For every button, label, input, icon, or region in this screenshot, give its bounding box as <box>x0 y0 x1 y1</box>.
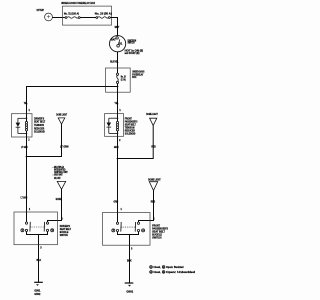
passenger solenoid top junction <box>109 117 118 119</box>
wire dome light lower to passenger buckle switch <box>139 191 154 223</box>
pin 2 driver buckle switch <box>61 219 63 221</box>
under-dash fuse/relay box label <box>132 70 144 79</box>
svg-text:3: 3 <box>131 249 133 251</box>
svg-text:No. 31 (100 A): No. 31 (100 A) <box>64 13 79 16</box>
dome light connector arrow right upper <box>150 118 157 125</box>
driver buckle switch left pole contacts <box>25 212 27 231</box>
pin 1 passenger buckle switch <box>121 209 123 211</box>
fuse No.15 <box>116 73 118 83</box>
svg-text:2: 2 <box>150 272 151 274</box>
wire label BLK passenger <box>127 260 132 263</box>
driver solenoid bottom junction <box>18 133 27 135</box>
svg-text:1: 1 <box>150 267 151 269</box>
pin 1 passenger solenoid <box>119 110 121 112</box>
svg-text:BLK/YEL: BLK/YEL <box>110 60 119 63</box>
circled contact number 3 <box>51 229 54 232</box>
fuse No.23 <box>96 17 110 19</box>
wire between fuses <box>80 17 96 19</box>
battery label <box>37 8 45 12</box>
multiplex control unit note <box>53 167 68 180</box>
svg-text:RED: RED <box>151 200 156 203</box>
junction driver dome branch <box>26 156 28 158</box>
dome light connector arrow left <box>58 118 65 124</box>
driver buckle switch right lever <box>43 222 45 232</box>
svg-text:SRS UNIT: SRS UNIT <box>54 175 63 177</box>
ignition switch lever <box>119 39 120 44</box>
svg-text:and START (III): and START (III) <box>125 51 140 55</box>
driver buckle switch bottom bus <box>27 232 48 245</box>
svg-text:SWITCH: SWITCH <box>60 233 68 237</box>
svg-text:BLK/RED: BLK/RED <box>56 199 62 201</box>
dome light label right lower <box>148 179 161 182</box>
passenger buckle switch left lever <box>120 222 122 232</box>
wire driver buckle switch to ground <box>38 245 40 282</box>
svg-text:DRL UNIT: DRL UNIT <box>54 178 61 180</box>
wire label BLK driver <box>37 259 42 262</box>
wire control unit arrow to driver buckle switch <box>48 189 62 222</box>
under-hood fuse/relay box label <box>61 1 95 5</box>
passenger buckle switch bottom bus <box>118 232 139 246</box>
wire passenger buckle switch to ground <box>129 245 131 283</box>
svg-text:LT GRN: LT GRN <box>21 146 28 149</box>
svg-text:GRN: GRN <box>114 201 119 204</box>
dome light label right upper <box>146 113 158 116</box>
dome light connector arrow right lower <box>149 182 157 191</box>
driver solenoid internal wire top <box>26 114 28 122</box>
svg-text:1: 1 <box>29 209 31 211</box>
ignition switch <box>110 36 126 52</box>
wire dome light left to junction <box>27 124 62 156</box>
svg-text:G601: G601 <box>126 290 133 293</box>
driver seat belt tension reducer solenoid box <box>12 114 33 137</box>
svg-text:YEL: YEL <box>115 102 119 105</box>
svg-text:1: 1 <box>121 209 123 211</box>
svg-text:No. 15: No. 15 <box>121 77 126 79</box>
svg-text:DOME LIGHT: DOME LIGHT <box>146 113 158 116</box>
fuse No.23 label <box>95 13 112 16</box>
svg-text:1: 1 <box>29 110 31 112</box>
svg-text:DOME LIGHT: DOME LIGHT <box>56 113 67 116</box>
svg-text:2: 2 <box>28 140 30 142</box>
wire fuse down through box <box>117 84 119 114</box>
wire fuse box to ignition switch <box>110 18 117 37</box>
svg-text:SWITCH: SWITCH <box>128 41 135 44</box>
wire label RED dome right <box>151 146 156 149</box>
driver buckle switch left lever <box>29 222 31 232</box>
ground G501 <box>34 282 43 286</box>
passenger buckle switch right pole contacts <box>137 222 139 232</box>
passenger solenoid internal wire bottom <box>117 131 119 137</box>
svg-text:Open: Unbuckled: Open: Unbuckled <box>166 271 196 274</box>
wire label LT GRN driver lower <box>21 196 28 199</box>
driver solenoid coil L1 <box>25 121 27 131</box>
svg-text:LT GRN: LT GRN <box>60 146 69 149</box>
ignition switch BAT terminal <box>116 37 118 39</box>
wire label GRN passenger lower <box>114 201 119 204</box>
junction passenger dome branch <box>117 158 119 160</box>
ground G601 <box>125 283 134 287</box>
battery <box>45 13 53 21</box>
ignition switch IG1 terminal <box>117 45 120 48</box>
svg-text:Closed,: Closed, <box>153 266 160 269</box>
svg-text:BATTERY: BATTERY <box>37 8 45 12</box>
svg-text:3: 3 <box>163 267 164 269</box>
ignition hot note <box>125 49 144 56</box>
svg-text:Open: Buckled: Open: Buckled <box>166 266 184 269</box>
front passenger seat belt tension reducer solenoid box <box>105 114 124 137</box>
fuse No.31 label <box>64 13 79 16</box>
svg-text:SWITCH: SWITCH <box>152 236 161 240</box>
pin 3 passenger buckle switch <box>131 249 133 251</box>
under-dash fuse/relay box <box>106 68 131 92</box>
svg-text:2: 2 <box>61 219 63 221</box>
passenger buckle switch left pole contacts <box>116 213 118 232</box>
front passenger seat belt buckle switch box <box>103 213 151 246</box>
pin 2 passenger buckle switch <box>153 219 155 221</box>
driver solenoid diode D1 <box>16 118 21 133</box>
svg-text:DOME LIGHT: DOME LIGHT <box>148 179 161 182</box>
svg-text:RED: RED <box>151 146 156 149</box>
circled contact number 2 <box>112 229 115 232</box>
svg-text:SOLENOID: SOLENOID <box>125 132 136 136</box>
svg-text:1: 1 <box>119 110 121 112</box>
wire label BLK/YEL <box>110 60 119 63</box>
svg-text:BOX: BOX <box>132 76 136 79</box>
passenger solenoid diode D2 <box>107 118 112 133</box>
svg-text:SOLENOID: SOLENOID <box>34 130 45 134</box>
wire passenger solenoid to buckle switch <box>117 136 119 212</box>
control unit connector arrow left <box>57 181 65 189</box>
driver solenoid label <box>34 116 46 133</box>
svg-text:LT GRN: LT GRN <box>21 196 28 199</box>
svg-text:(7.5 A): (7.5 A) <box>121 79 126 82</box>
passenger buckle switch gang dashes <box>122 226 136 228</box>
svg-text:IG1: IG1 <box>119 42 123 46</box>
driver buckle switch label <box>60 224 72 237</box>
svg-text:BLK: BLK <box>37 259 42 262</box>
legend line 2 <box>150 271 196 274</box>
wire label GRN passenger upper <box>114 146 119 149</box>
wire driver solenoid to buckle switch <box>26 137 28 212</box>
junction under-dash <box>117 86 119 88</box>
passenger solenoid label <box>125 117 138 136</box>
pin 2 passenger solenoid <box>119 140 121 142</box>
wire label WHT <box>115 26 120 29</box>
pin 1 driver solenoid <box>29 110 31 112</box>
wire label LT GRN driver upper <box>21 146 28 149</box>
dome light label left <box>56 113 67 116</box>
svg-text:CONTROL UNIT: CONTROL UNIT <box>54 172 68 174</box>
terminal label BAT <box>111 37 116 41</box>
driver buckle switch gang dashes <box>31 226 44 228</box>
ground label G601 <box>126 290 133 293</box>
passenger buckle switch right lever <box>134 222 136 232</box>
svg-text:BAT: BAT <box>111 37 116 41</box>
ignition switch label <box>128 39 137 44</box>
passenger buckle switch label <box>152 224 168 240</box>
under-hood fuse/relay box <box>63 6 112 25</box>
passenger solenoid bottom junction <box>109 133 118 135</box>
svg-text:2: 2 <box>119 140 121 142</box>
svg-text:Closed,: Closed, <box>153 271 160 274</box>
svg-text:3: 3 <box>40 248 42 250</box>
driver seat belt buckle switch box <box>14 212 58 245</box>
wire branch to driver side <box>27 87 118 114</box>
fuse No.15 label <box>121 77 126 82</box>
passenger solenoid coil L2 <box>116 121 118 131</box>
circled contact number 4 <box>142 229 145 232</box>
svg-text:No. 23 (50 A): No. 23 (50 A) <box>95 13 112 16</box>
svg-text:WHT: WHT <box>115 26 120 29</box>
svg-text:BLK: BLK <box>127 260 132 263</box>
pin 1 driver buckle switch <box>29 209 31 211</box>
wire label RED lower <box>151 200 156 203</box>
terminal label IG1 <box>119 42 123 46</box>
svg-text:UNDER-HOOD FUSE/RELAY BOX: UNDER-HOOD FUSE/RELAY BOX <box>61 1 95 5</box>
svg-text:GRN: GRN <box>114 146 119 149</box>
wire dome light right to junction <box>118 126 154 159</box>
pin 2 driver solenoid <box>28 140 30 142</box>
passenger solenoid internal wire top <box>117 114 119 122</box>
svg-text:G502: G502 <box>34 293 41 296</box>
svg-text:YEL: YEL <box>24 102 28 105</box>
pin 3 driver buckle switch <box>40 248 42 250</box>
wire label YEL left <box>24 102 28 105</box>
svg-text:2: 2 <box>153 219 155 221</box>
wire label LT GRN dome left <box>60 146 69 149</box>
wire label BLK/RED <box>56 199 62 201</box>
driver solenoid top junction <box>18 118 27 120</box>
driver buckle switch right pole contacts <box>46 222 48 231</box>
fuse No.31 <box>65 17 80 19</box>
legend line 1 <box>150 266 184 269</box>
wire label YEL right <box>115 102 119 105</box>
wire ignition switch to under-dash fuse box <box>117 52 119 74</box>
ground label G501 G502 <box>34 290 41 296</box>
driver solenoid internal wire bottom <box>26 131 28 137</box>
wire battery to under-hood fuse box <box>52 17 65 19</box>
circled contact number 1 <box>21 229 24 232</box>
